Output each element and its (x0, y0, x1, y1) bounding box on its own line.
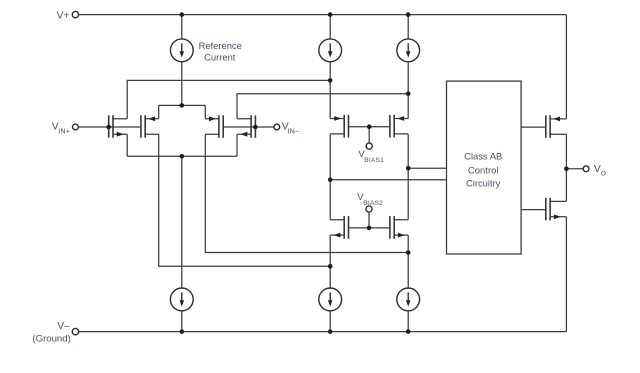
svg-text:BIAS2: BIAS2 (363, 200, 383, 207)
svg-text:Current: Current (204, 51, 236, 62)
svg-text:V: V (594, 164, 601, 175)
svg-text:(Ground): (Ground) (32, 333, 70, 344)
svg-text:Control: Control (468, 165, 499, 176)
svg-text:V+: V+ (57, 10, 70, 21)
svg-text:V–: V– (57, 321, 70, 332)
svg-text:Circuitry: Circuitry (466, 177, 501, 188)
svg-text:IN–: IN– (287, 129, 299, 136)
svg-text:BIAS1: BIAS1 (364, 157, 384, 164)
svg-text:Reference: Reference (199, 40, 242, 51)
svg-text:O: O (601, 171, 606, 178)
svg-text:Class AB: Class AB (464, 151, 502, 162)
svg-text:IN+: IN+ (58, 129, 70, 136)
